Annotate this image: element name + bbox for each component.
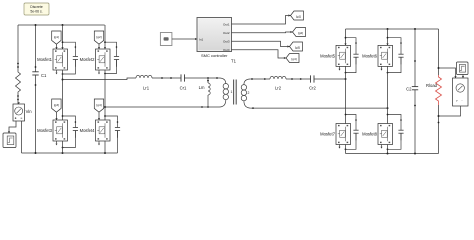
wire: Vin plus to bottom rail: [21, 121, 23, 153]
wire: Cr2 to right bridge node A': [314, 78, 346, 80]
transistor Mosfet6: [362, 45, 392, 66]
capacitor Cr1: [180, 74, 187, 90]
transformer T1: [220, 59, 251, 109]
svg-text:2: 2: [248, 91, 250, 95]
scope Scope2 (top right): [457, 62, 469, 75]
inductor Lm (magnetizing): [199, 78, 211, 108]
transistor Mosfet1: [37, 49, 67, 70]
wire: Mosfet1 m stub: [56, 70, 58, 73]
transistor Mosfet4: [80, 120, 110, 141]
svg-text:[g1]: [g1]: [296, 14, 301, 18]
controller U1 (SMC controller): [197, 18, 232, 58]
svg-text:[g3]: [g3]: [295, 45, 300, 49]
wire: constant to controller In1: [172, 38, 197, 40]
capacitor C_M2 (snubber): [104, 41, 119, 74]
constant block phi: [160, 33, 172, 46]
svg-text:[g4]: [g4]: [96, 103, 101, 107]
svg-text:Discrete: Discrete: [30, 5, 43, 9]
svg-text:Rload: Rload: [426, 83, 438, 88]
wire: Mosfet1 drain: [62, 25, 64, 49]
goto tag [g3]: [290, 42, 303, 51]
transistor Mosfet3: [37, 120, 67, 141]
svg-text:-: -: [462, 99, 463, 103]
wire: Mosfet8 source to bottom rail: [387, 145, 389, 154]
wire: Out4 to goto g4: [232, 50, 287, 58]
svg-text:[g4]: [g4]: [291, 57, 296, 61]
svg-text:Lr1: Lr1: [143, 86, 150, 91]
svg-text:[g1]: [g1]: [54, 35, 59, 39]
svg-text:Mosfet6: Mosfet6: [362, 53, 378, 58]
wire: right bridge bottom rail: [346, 153, 439, 155]
node A vertical (M1 source to M3 drain): [62, 70, 64, 120]
wire: left branch vertical (rail to resistor): [17, 25, 19, 70]
From tag [g1]: [52, 31, 61, 44]
capacitor C_M6 (snubber): [387, 37, 404, 74]
svg-text:Mosfet4: Mosfet4: [80, 128, 96, 133]
capacitor C_M5 (snubber): [345, 37, 359, 74]
wire: Mosfet4 source to bottom rail: [104, 141, 106, 153]
svg-text:Mosfet1: Mosfet1: [37, 57, 53, 62]
svg-text:Lr2: Lr2: [275, 86, 282, 91]
svg-text:Out3: Out3: [223, 39, 230, 43]
wire: Mosfet3 m stub: [56, 141, 58, 144]
From tag [g4]: [94, 99, 103, 112]
resistor Rload: [426, 29, 441, 154]
capacitor C1: [32, 25, 47, 153]
svg-text:Out4: Out4: [223, 48, 230, 52]
svg-text:1: 1: [231, 90, 233, 94]
svg-text:[g2]: [g2]: [298, 31, 303, 35]
wire: g4 to Mosfet4 gate: [98, 112, 100, 120]
wire: Mosfet6 m stub: [381, 66, 383, 69]
svg-text:SMC controller: SMC controller: [201, 53, 228, 58]
From tag [g2]: [94, 31, 103, 44]
svg-text:C2: C2: [406, 87, 412, 92]
wire: Mosfet2 m stub: [98, 70, 100, 73]
wire: Mosfet8 m stub: [381, 145, 383, 148]
svg-text:In1: In1: [199, 37, 204, 41]
wire: left bridge top rail: [18, 24, 105, 26]
svg-text:C1: C1: [41, 73, 47, 78]
wire: secondary bottom to node B': [250, 107, 387, 109]
svg-text:[g2]: [g2]: [96, 35, 101, 39]
svg-text:Out1: Out1: [223, 22, 230, 26]
primary winding 1: [220, 78, 226, 84]
core: [233, 80, 235, 105]
capacitor C_M8 (snubber): [387, 114, 404, 151]
svg-text:Mosfet7: Mosfet7: [320, 132, 336, 137]
capacitor C2: [406, 29, 418, 154]
scope Scope1 (bottom-left): [3, 133, 16, 148]
wire: VM v output to scope: [462, 75, 464, 79]
svg-text:5e-06 s.: 5e-06 s.: [30, 9, 42, 13]
svg-text:[g3]: [g3]: [54, 103, 59, 107]
From tag [g3]: [52, 99, 61, 112]
goto tag [g4]: [286, 54, 299, 63]
transistor Mosfet7: [320, 124, 350, 145]
wire: Vin negative to scope: [9, 121, 16, 133]
svg-text:Cr1: Cr1: [180, 86, 187, 91]
wire: secondary top to Lr2: [250, 78, 270, 80]
resistor R (series, input): [16, 70, 21, 104]
svg-text:Mosfet3: Mosfet3: [37, 128, 53, 133]
svg-text:Mosfet2: Mosfet2: [80, 57, 96, 62]
wire: left bridge bottom rail: [22, 152, 118, 154]
capacitor Cr2: [309, 75, 316, 90]
svg-text:Cr2: Cr2: [309, 86, 316, 91]
node B vertical (M2 source to M4 drain): [104, 70, 106, 120]
capacitor C_M7 (snubber): [345, 114, 359, 151]
svg-text:Mosfet5: Mosfet5: [320, 53, 336, 58]
goto tag [g1]: [291, 11, 304, 20]
capacitor C_M1 (snubber): [62, 41, 78, 75]
wire: node A to Lr1: [63, 78, 137, 80]
wire: Mosfet5 m stub: [339, 66, 341, 69]
wire: Out1 to goto g1: [232, 16, 291, 25]
svg-text:Vin: Vin: [26, 109, 33, 114]
node: rail junctions: [35, 24, 37, 26]
svg-text:T1: T1: [231, 59, 237, 64]
wire: Cr1 to transformer primary: [185, 77, 220, 79]
wire: Mosfet2 drain: [104, 25, 106, 49]
wire: Mosfet3 source to bottom rail: [62, 141, 64, 153]
node B' vertical (M6 source to M8 drain): [387, 66, 389, 123]
wire: Lr1 to Cr1: [152, 77, 181, 79]
svg-text:Lm: Lm: [199, 85, 205, 90]
inductor Lr2: [270, 76, 286, 90]
svg-text:Mosfet8: Mosfet8: [362, 132, 378, 137]
wire: Mosfet4 m stub: [98, 141, 100, 144]
capacitor C_M3 (snubber): [62, 115, 78, 148]
wire: right bridge top rail: [346, 28, 439, 30]
inductor Lr1: [136, 75, 152, 90]
node A' vertical (M5 source to M7 drain): [345, 66, 347, 123]
wire: g2 to Mosfet2 gate: [98, 44, 100, 49]
secondary winding 2: [244, 79, 250, 85]
wire: VM minus to Rload bottom: [439, 106, 461, 116]
wire: Out2 to goto g2: [232, 31, 293, 34]
wire: Mosfet5 drain: [345, 29, 347, 45]
goto tag [g2]: [293, 28, 306, 37]
transistor Mosfet8: [362, 124, 392, 145]
DC source Vin: [13, 102, 32, 121]
voltage measurement VM: [453, 78, 469, 106]
wire: Rload top to voltage measurement plus: [439, 68, 456, 78]
wire: g3 to Mosfet3 gate: [56, 112, 58, 120]
capacitor C_M4 (snubber): [104, 115, 120, 153]
transistor Mosfet5: [320, 45, 350, 66]
svg-text:Out2: Out2: [223, 31, 230, 35]
wire: primary bottom (node B to transformer): [105, 106, 220, 108]
wire: Out3 to goto g3: [232, 41, 290, 46]
wire: g1 to Mosfet1 gate: [56, 44, 58, 49]
wire: Mosfet6 drain: [387, 29, 389, 45]
transistor Mosfet2: [80, 49, 110, 70]
wire: Lr2 to Cr2: [286, 78, 311, 80]
powergui block (Discrete 5e-06 s.): [24, 3, 49, 15]
wire: Mosfet7 source to bottom rail: [345, 145, 347, 154]
wire: Mosfet7 m stub: [339, 145, 341, 148]
